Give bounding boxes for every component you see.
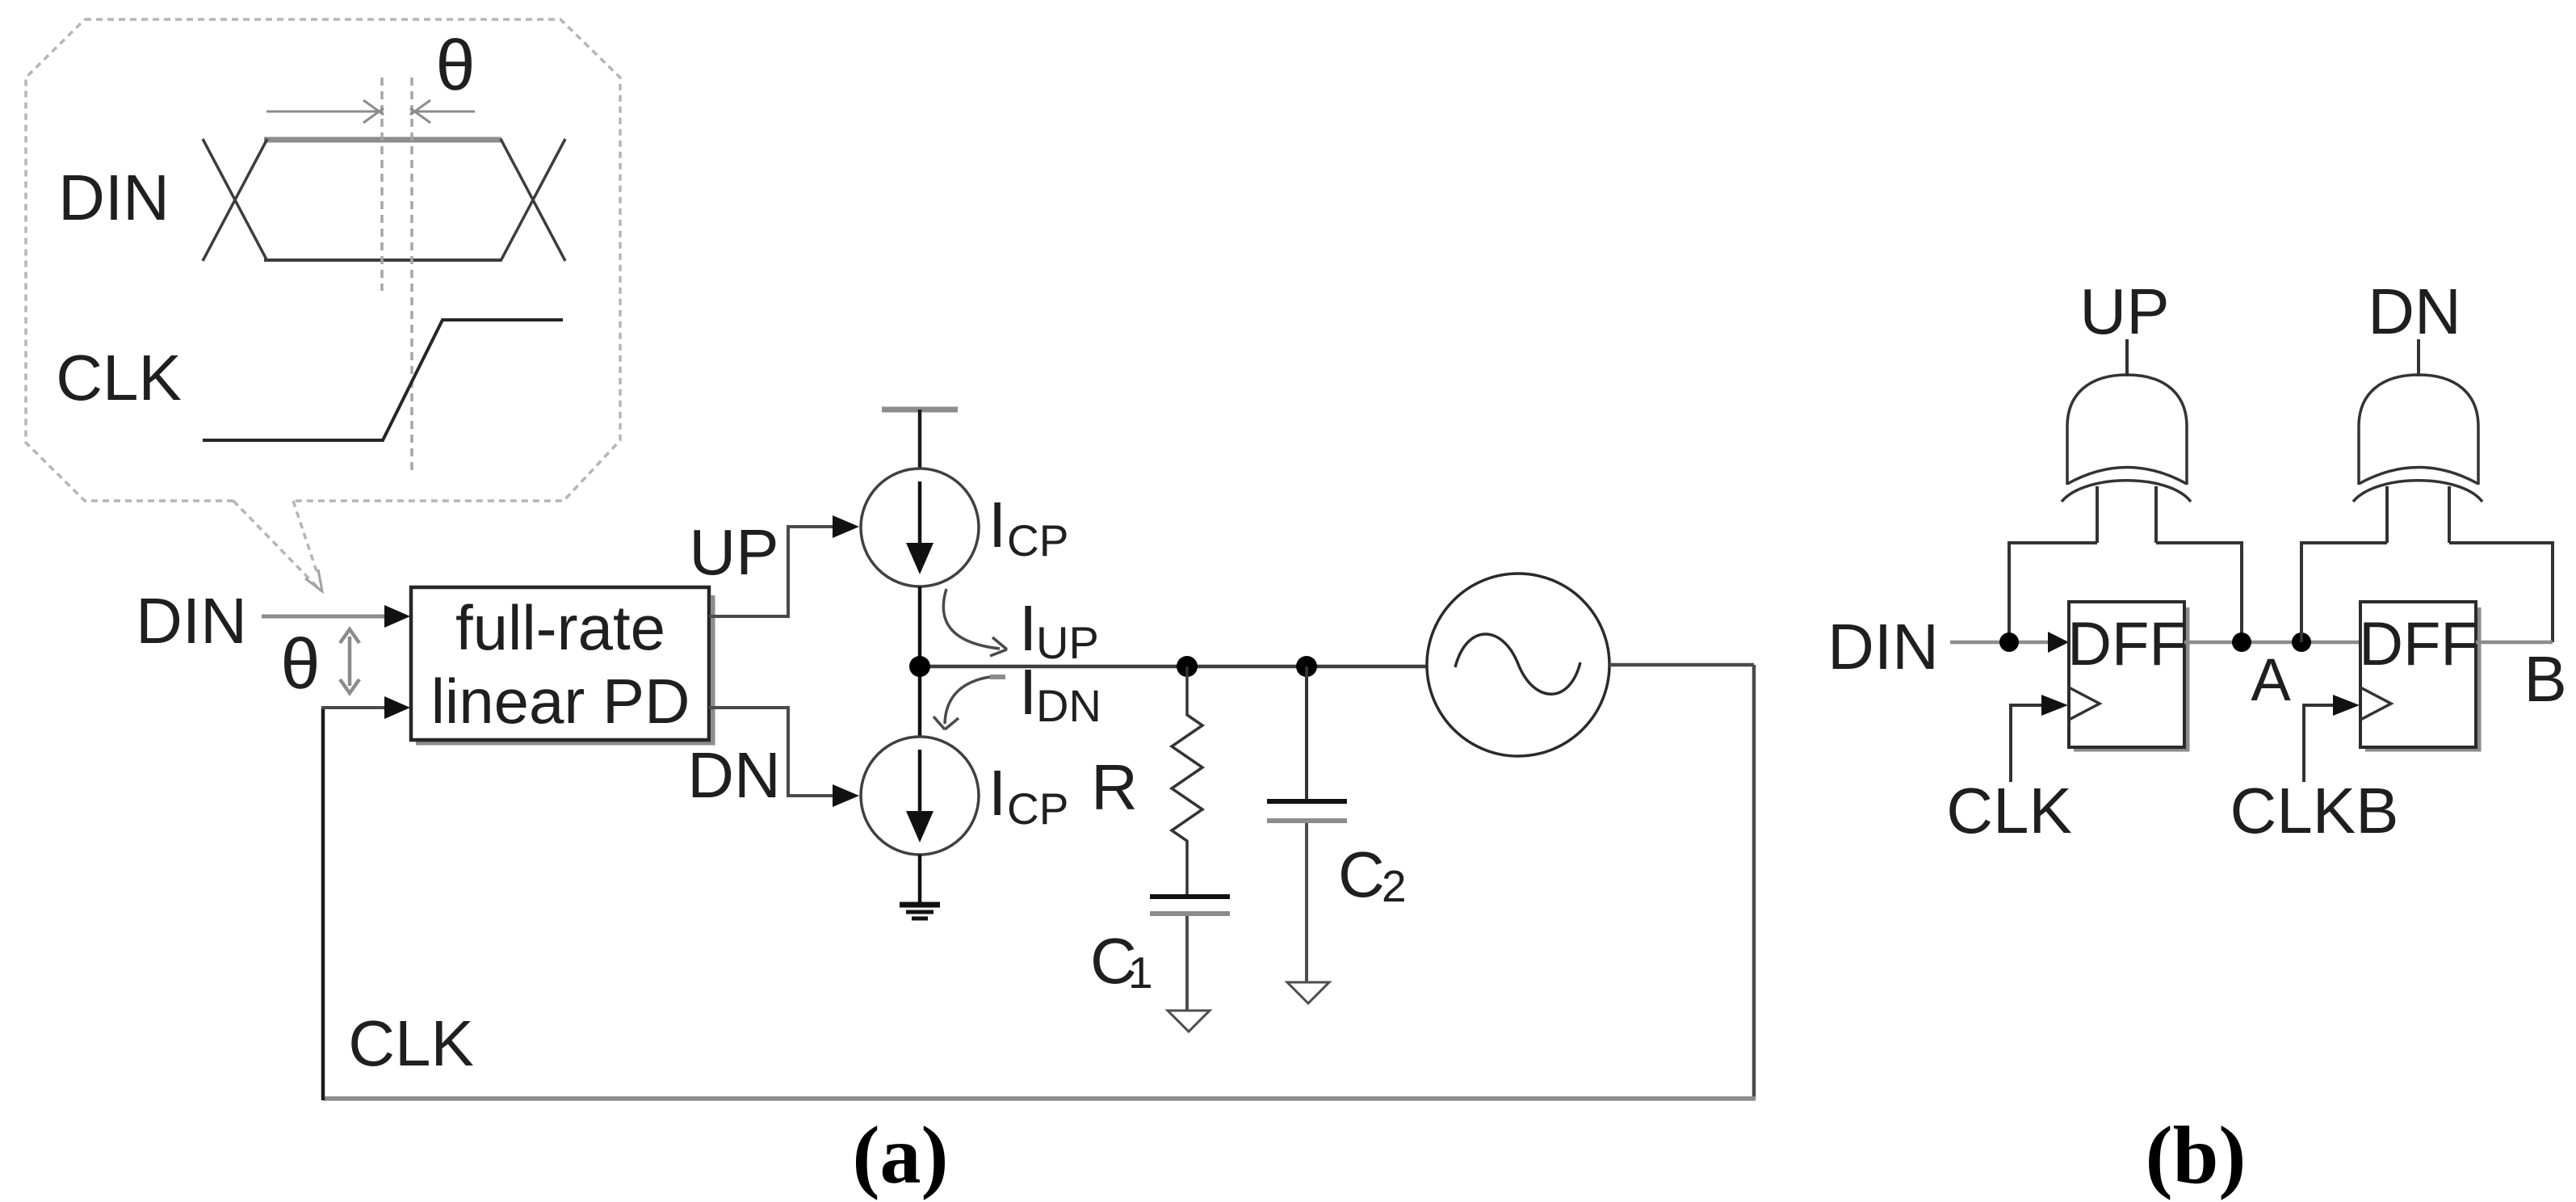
svg-text:B: B: [2524, 643, 2566, 715]
node dot main: [909, 656, 930, 677]
svg-text:linear PD: linear PD: [431, 666, 690, 737]
svg-text:I: I: [1019, 656, 1037, 728]
svg-text:DIN: DIN: [136, 585, 247, 657]
wire CS1 to node: [918, 586, 922, 738]
node dot C2 branch: [1296, 656, 1317, 677]
data eye right crossing: [501, 139, 565, 261]
I_UP curved arrow: [943, 589, 1000, 649]
wire XOR DN right input: [2449, 543, 2553, 642]
svg-text:θ: θ: [281, 624, 321, 704]
full-rate linear PD box shadow: [416, 595, 713, 743]
node dot DIN (b): [1999, 633, 2019, 652]
svg-text:(b): (b): [2146, 1110, 2247, 1201]
resistor R: [1172, 666, 1202, 894]
wire output B: [2476, 641, 2553, 645]
node dot A1: [2232, 633, 2251, 652]
svg-text:UP: UP: [1036, 617, 1099, 668]
ground (3-bar): [900, 905, 940, 918]
svg-text:DFF: DFF: [2359, 610, 2478, 679]
wire rail to CS1: [918, 410, 922, 469]
svg-text:2: 2: [1382, 861, 1407, 911]
data eye top line: [264, 137, 501, 143]
VCO circle: [1427, 574, 1609, 756]
current source I_CP upper: [861, 469, 979, 586]
svg-text:DN: DN: [687, 739, 781, 811]
svg-text:DFF: DFF: [2067, 610, 2187, 679]
data eye bottom line: [264, 258, 501, 262]
svg-text:C: C: [1338, 838, 1385, 910]
svg-text:A: A: [2251, 646, 2291, 713]
I_DN curved arrow: [990, 675, 1005, 679]
svg-text:(a): (a): [853, 1110, 949, 1201]
dashed marker line 2: [410, 78, 413, 471]
svg-text:DN: DN: [2368, 275, 2461, 347]
theta dimension arrow left: [266, 100, 384, 123]
wire DN stem: [2417, 339, 2420, 376]
wire CLKB: [2304, 705, 2336, 782]
ground C2 (triangle): [1287, 982, 1329, 1003]
DFF2 clock pin: [2360, 687, 2391, 720]
control node line: [920, 665, 1428, 669]
capacitor C2: [1305, 666, 1308, 800]
bubble pointer tail: [233, 501, 321, 590]
DFF2 box: [2360, 602, 2476, 747]
svg-text:CP: CP: [1007, 515, 1068, 565]
svg-text:DN: DN: [1036, 680, 1101, 731]
svg-text:DIN: DIN: [1827, 611, 1939, 683]
svg-text:I: I: [988, 757, 1006, 829]
phase double arrow: [340, 629, 359, 693]
wire CS2 to ground: [918, 855, 922, 904]
bubble tail arrowhead: [305, 569, 322, 591]
dashed marker line 1: [380, 78, 384, 291]
node dot A2: [2292, 633, 2311, 652]
DFF1 clock pin: [2069, 687, 2100, 720]
XOR gate DN: [2353, 375, 2482, 502]
ground C1 (triangle): [1168, 1011, 1210, 1032]
XOR gate UP: [2062, 375, 2191, 502]
svg-text:R: R: [1091, 751, 1138, 823]
wire DN to current source: [709, 708, 836, 796]
wire feedback left vertical: [321, 708, 325, 1100]
XOR UP input stubs: [2097, 486, 2156, 543]
node dot R branch: [1177, 656, 1198, 677]
capacitor C1: [1150, 894, 1230, 899]
svg-text:CLK: CLK: [56, 342, 182, 414]
VCO sine symbol: [1455, 634, 1580, 694]
svg-text:DIN: DIN: [58, 162, 170, 233]
svg-text:CP: CP: [1007, 784, 1068, 834]
supply rail: [882, 407, 958, 413]
full-rate linear PD box: [411, 587, 709, 740]
wire UP to current source: [709, 527, 836, 616]
svg-text:UP: UP: [2079, 275, 2169, 347]
svg-text:1: 1: [1128, 948, 1153, 998]
wire VCO output: [1609, 663, 1754, 667]
svg-text:I: I: [1019, 592, 1037, 664]
wire feedback right vertical: [1752, 665, 1756, 1099]
wire feedback bottom: [323, 1096, 1756, 1101]
svg-text:CLK: CLK: [348, 1007, 474, 1079]
wire XOR DN left input: [2301, 543, 2387, 642]
DFF1 box: [2069, 602, 2184, 747]
DFF2 box shadow: [2365, 607, 2479, 750]
wire DIN into PD: [262, 615, 388, 619]
svg-text:UP: UP: [689, 516, 778, 588]
wire CLK (b): [2011, 705, 2045, 782]
svg-text:I: I: [988, 489, 1006, 561]
wire node A: [2184, 641, 2360, 645]
DFF1 box shadow: [2074, 607, 2188, 750]
current source I_CP lower: [861, 737, 979, 855]
wire CLK into PD: [321, 706, 388, 709]
svg-text:full-rate: full-rate: [455, 592, 665, 663]
inset bubble outline (dashed octagon): [26, 19, 620, 501]
CLK waveform (inset): [203, 320, 563, 440]
data eye left crossing: [203, 139, 267, 261]
wire DIN (b): [1950, 641, 2051, 645]
theta dimension arrow right: [410, 100, 475, 123]
svg-text:θ: θ: [436, 25, 476, 105]
svg-text:CLKB: CLKB: [2230, 775, 2399, 847]
XOR DN input stubs: [2387, 486, 2449, 543]
wire XOR UP left input: [2009, 543, 2097, 642]
wire UP stem: [2125, 339, 2129, 376]
svg-text:CLK: CLK: [1946, 775, 2072, 847]
wire XOR UP right input: [2156, 543, 2242, 642]
